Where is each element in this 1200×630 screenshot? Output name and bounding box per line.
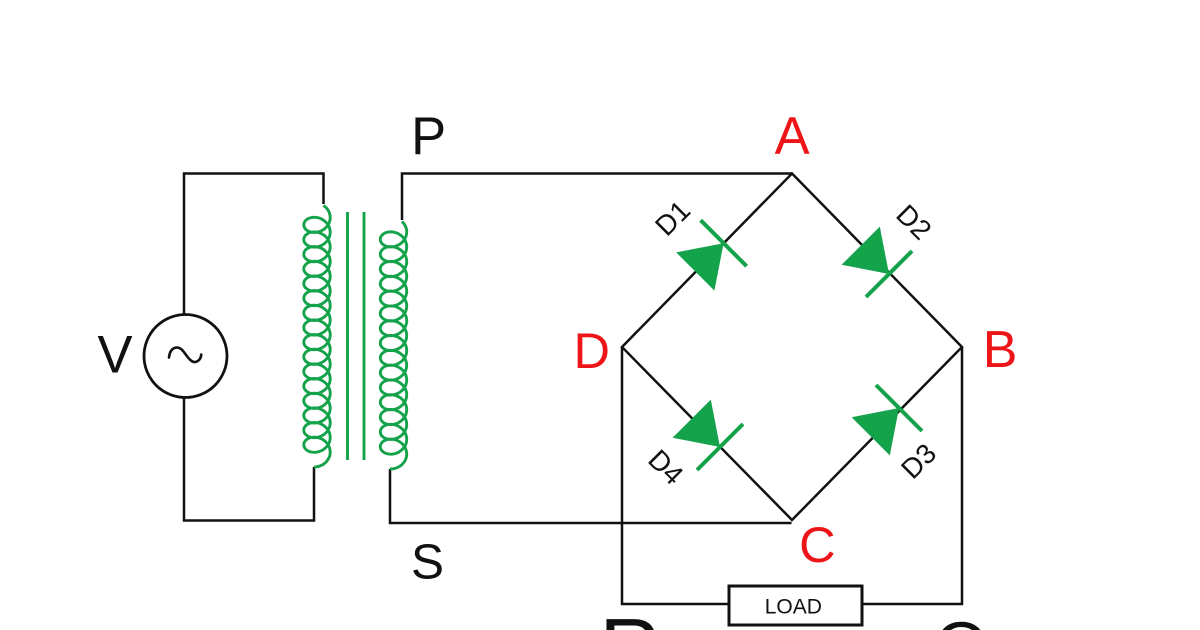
svg-text:C: C	[799, 516, 835, 573]
svg-text:S: S	[411, 535, 444, 590]
svg-text:A: A	[775, 107, 810, 166]
svg-text:B: B	[983, 321, 1018, 379]
svg-text:R: R	[600, 602, 661, 630]
svg-text:V: V	[97, 326, 132, 385]
svg-text:O: O	[935, 608, 989, 630]
svg-text:D: D	[573, 322, 609, 379]
svg-text:LOAD: LOAD	[765, 595, 822, 618]
svg-text:P: P	[411, 107, 446, 166]
